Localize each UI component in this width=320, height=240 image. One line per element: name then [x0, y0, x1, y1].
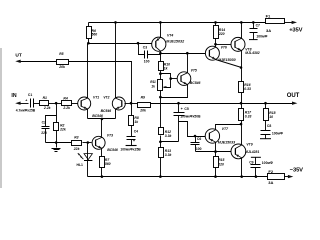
svg-text:BC546: BC546 — [92, 114, 103, 118]
svg-text:3A: 3A — [266, 28, 271, 33]
svg-text:220: 220 — [217, 162, 224, 166]
svg-text:MJL4302: MJL4302 — [245, 51, 259, 55]
svg-text:UT: UT — [15, 53, 21, 59]
svg-text:VT3: VT3 — [107, 134, 113, 138]
svg-text:MJE15030: MJE15030 — [218, 58, 235, 62]
svg-text:3.3k: 3.3k — [165, 134, 173, 138]
svg-text:2.2k: 2.2k — [43, 106, 52, 110]
svg-text:0.33: 0.33 — [245, 115, 252, 119]
svg-text:R5: R5 — [59, 52, 63, 56]
svg-text:10: 10 — [269, 115, 273, 119]
svg-text:100мФ: 100мФ — [262, 161, 273, 165]
svg-text:R4: R4 — [63, 96, 67, 100]
svg-text:0.33: 0.33 — [244, 87, 251, 91]
svg-text:C2: C2 — [42, 120, 46, 124]
svg-text:100: 100 — [144, 60, 150, 64]
svg-text:MJE15032: MJE15032 — [166, 40, 185, 44]
svg-text:100мкФх25В: 100мкФх25В — [120, 148, 141, 152]
svg-text:MJL4281: MJL4281 — [245, 150, 259, 154]
svg-text:+35V: +35V — [289, 28, 302, 34]
svg-text:4.7мкФх25В: 4.7мкФх25В — [16, 108, 36, 112]
svg-text:C7: C7 — [256, 23, 260, 27]
svg-text:220: 220 — [218, 32, 225, 36]
svg-text:3A: 3A — [268, 180, 273, 185]
svg-text:VT2: VT2 — [103, 95, 109, 99]
svg-text:IN: IN — [11, 93, 16, 99]
svg-text:VT5: VT5 — [191, 69, 197, 73]
svg-text:BC546: BC546 — [107, 148, 118, 152]
svg-text:22k: 22k — [59, 127, 67, 131]
svg-text:+: + — [25, 99, 27, 103]
svg-text:2.2k: 2.2k — [62, 106, 71, 110]
svg-text:R1: R1 — [43, 96, 47, 100]
svg-text:C9: C9 — [249, 161, 253, 165]
svg-text:R9: R9 — [141, 95, 145, 99]
svg-text:560: 560 — [105, 162, 111, 166]
svg-text:22k: 22k — [73, 147, 81, 151]
svg-text:C6: C6 — [197, 137, 201, 141]
svg-text:C4: C4 — [134, 130, 138, 134]
svg-text:VT4: VT4 — [167, 34, 173, 38]
svg-text:C1: C1 — [28, 93, 32, 97]
svg-text:−35V: −35V — [290, 168, 303, 174]
svg-text:C3: C3 — [143, 45, 147, 49]
svg-text:VT1: VT1 — [93, 95, 99, 99]
svg-text:1k: 1k — [151, 85, 155, 89]
svg-text:BC546: BC546 — [190, 81, 201, 85]
svg-text:R3: R3 — [74, 135, 78, 139]
svg-text:100мФ: 100мФ — [272, 132, 283, 136]
svg-text:VT6: VT6 — [221, 46, 227, 50]
svg-text:F1: F1 — [266, 13, 271, 18]
svg-text:OUT: OUT — [287, 93, 300, 99]
svg-text:100: 100 — [196, 147, 202, 151]
svg-text:220: 220 — [41, 131, 47, 135]
svg-text:R11: R11 — [150, 80, 156, 84]
svg-text:C5: C5 — [184, 107, 188, 111]
svg-text:560: 560 — [92, 33, 98, 37]
svg-text:BC546: BC546 — [101, 109, 112, 113]
svg-text:HL1: HL1 — [77, 163, 84, 167]
svg-text:F2: F2 — [268, 169, 273, 174]
svg-text:20k: 20k — [58, 65, 66, 69]
svg-text:3.3k: 3.3k — [165, 153, 173, 157]
svg-text:VT9: VT9 — [246, 143, 252, 147]
svg-text:20k: 20k — [139, 109, 147, 113]
svg-text:MJE15033: MJE15033 — [218, 140, 235, 144]
svg-text:100мФ: 100мФ — [256, 34, 267, 38]
svg-text:100мкФх50В: 100мкФх50В — [180, 115, 201, 119]
svg-text:C8: C8 — [267, 124, 271, 128]
